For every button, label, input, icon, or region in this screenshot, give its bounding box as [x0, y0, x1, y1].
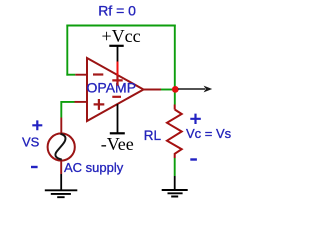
- wire Vee black segment: [117, 104, 119, 133]
- Vee T-bar: [110, 132, 125, 134]
- wire Vcc red segment: [117, 62, 119, 76]
- source VS circle: [48, 133, 75, 160]
- label minus at Vc: [190, 158, 197, 160]
- wire below resistor black: [174, 176, 176, 190]
- arrow output: [178, 88, 205, 90]
- wire feedback right vertical (green): [174, 25, 176, 105]
- wire below resistor green: [174, 158, 176, 176]
- op-amp inverting input marker (minus): [93, 73, 103, 75]
- op-amp supply plus marker: [112, 75, 122, 85]
- wire source top dark red: [60, 118, 62, 134]
- label plus at Vc: [190, 114, 201, 124]
- svg-text:RL: RL: [144, 128, 162, 143]
- ground right: [162, 190, 188, 197]
- wire below source black: [60, 174, 62, 190]
- svg-text:+Vcc: +Vcc: [102, 26, 141, 46]
- svg-text:Rf = 0: Rf = 0: [98, 3, 136, 19]
- label plus at VS: [32, 120, 42, 130]
- op-amp U1 triangle: [87, 58, 144, 121]
- wire Vcc black segment: [117, 46, 119, 62]
- wire below source dark red: [60, 161, 62, 174]
- source sine wave: [55, 134, 65, 160]
- wire feedback left vertical (green): [66, 25, 68, 76]
- node output junction dot: [172, 86, 179, 93]
- svg-text:AC supply: AC supply: [64, 160, 124, 175]
- svg-text:-Vee: -Vee: [101, 134, 134, 154]
- wire output green to node: [161, 89, 175, 91]
- wire non-inverting input stub dark red: [75, 101, 89, 103]
- wire feedback top (green): [66, 25, 175, 27]
- op-amp non-inverting input marker (plus): [94, 99, 105, 110]
- label minus at VS: [31, 166, 38, 168]
- wire resistor top red: [174, 105, 176, 110]
- Vcc T-bar: [109, 45, 123, 47]
- svg-text:OPAMP: OPAMP: [87, 79, 137, 95]
- wire inverting input stub dark red: [75, 74, 88, 76]
- wire inverting input stub green: [66, 74, 75, 76]
- svg-text:VS: VS: [22, 134, 40, 149]
- svg-text:Vc = Vs: Vc = Vs: [186, 126, 232, 141]
- resistor RL zigzag: [167, 110, 182, 159]
- ground left: [45, 190, 78, 197]
- op-amp supply minus marker: [112, 96, 121, 98]
- wire output dark red from apex: [144, 89, 162, 91]
- wire non-inverting input stub green: [61, 101, 74, 118]
